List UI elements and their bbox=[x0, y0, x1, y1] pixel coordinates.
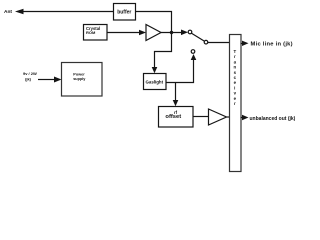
switch S1 lever bbox=[192, 33, 205, 41]
wire crystal to amp bbox=[107, 32, 139, 34]
svg-text:unbalanced out (jk): unbalanced out (jk) bbox=[250, 116, 296, 122]
switch S1 contact C bbox=[191, 50, 195, 54]
node Mic line in label bbox=[251, 41, 293, 47]
wire buffer output to junction bbox=[136, 12, 172, 32]
op-amp A1 bbox=[146, 25, 161, 41]
svg-text:Power: Power bbox=[73, 72, 85, 76]
svg-text:9v / 2W: 9v / 2W bbox=[23, 71, 37, 76]
node Ant label bbox=[4, 9, 12, 15]
wire antenna line bbox=[22, 11, 114, 13]
wire junction down to gaslight bbox=[155, 33, 172, 69]
wire crystal arrowhead bbox=[139, 30, 146, 36]
wire antenna arrowhead (points left) bbox=[15, 9, 24, 15]
svg-text:(jk): (jk) bbox=[25, 77, 32, 82]
transceiver block bbox=[230, 35, 242, 172]
wire branch down to oscillator bbox=[175, 83, 177, 102]
gaslight block bbox=[144, 74, 167, 90]
wire amp output bbox=[161, 32, 182, 34]
svg-text:r: r bbox=[234, 101, 236, 106]
wire arrowhead up to switch throw bbox=[191, 54, 197, 60]
wire mic line out arrow bbox=[241, 43, 243, 45]
op-amp A2 bbox=[209, 109, 227, 125]
node junction dot bbox=[170, 31, 173, 34]
node key input label bbox=[23, 71, 37, 81]
rf offset oscillator block bbox=[159, 107, 194, 128]
power supply block bbox=[62, 63, 103, 97]
wire arrowhead into power supply bbox=[54, 77, 62, 83]
wire unbalanced out arrow bbox=[241, 117, 243, 119]
svg-text:offset: offset bbox=[165, 114, 181, 120]
svg-text:supply: supply bbox=[73, 77, 86, 81]
wire switch to transceiver bbox=[208, 42, 230, 44]
wire arrowhead into gaslight bbox=[152, 67, 158, 73]
svg-text:Gaslight: Gaslight bbox=[146, 80, 164, 85]
svg-text:buffer: buffer bbox=[117, 10, 131, 16]
crystal ROM block bbox=[84, 25, 108, 41]
svg-text:Ant: Ant bbox=[4, 9, 12, 15]
switch S1 pole B bbox=[204, 40, 208, 44]
wire oscillator to amp 2 bbox=[193, 116, 209, 118]
wire amp2 to transceiver bbox=[227, 116, 230, 118]
wire arrowhead into switch bbox=[181, 30, 188, 36]
wire gaslight output bbox=[166, 58, 194, 83]
buffer U1 bbox=[114, 4, 136, 21]
svg-text:Mic line in (jk): Mic line in (jk) bbox=[251, 41, 293, 47]
wire arrowhead into oscillator bbox=[173, 100, 179, 106]
svg-text:ROM: ROM bbox=[86, 30, 96, 35]
switch S1 contact A bbox=[188, 30, 192, 34]
node unbalanced out label bbox=[250, 116, 296, 122]
wire key input to power supply bbox=[38, 79, 54, 81]
